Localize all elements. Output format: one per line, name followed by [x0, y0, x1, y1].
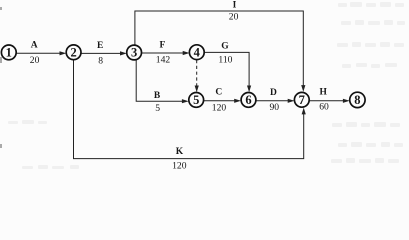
- svg-text:H: H: [320, 88, 328, 98]
- node 1: [1, 45, 16, 60]
- svg-text:E: E: [97, 41, 103, 51]
- svg-text:120: 120: [172, 160, 187, 171]
- svg-text:2: 2: [70, 46, 76, 60]
- arrowhead into node 3: [120, 51, 127, 55]
- svg-text:7: 7: [299, 93, 305, 107]
- arrowhead into node 7 bottom: [302, 108, 306, 115]
- wire G: 4 -> corner -> down into 6: [204, 52, 249, 86]
- svg-text:142: 142: [156, 55, 171, 66]
- wire C: 5->6: [204, 100, 236, 102]
- wire A: 1->2: [16, 52, 60, 54]
- node 8: [350, 92, 365, 107]
- arrowhead into node 8 left: [343, 99, 350, 103]
- svg-text:B: B: [154, 91, 161, 101]
- arrowhead into node 7 top: [301, 85, 305, 92]
- arrowhead into node 7 left: [288, 99, 295, 103]
- arrowhead into node 2: [60, 51, 67, 55]
- node 7: [294, 92, 309, 107]
- svg-text:8: 8: [354, 93, 360, 107]
- node 6: [241, 93, 256, 108]
- wire H: 7->8: [309, 100, 344, 102]
- left edge scan marks: [0, 7, 2, 148]
- wire D: 6->7: [256, 100, 289, 102]
- wire K: 2 bottom -> down -> right -> up into 7: [74, 60, 304, 159]
- svg-text:4: 4: [194, 45, 201, 59]
- svg-text:8: 8: [98, 56, 103, 67]
- svg-text:F: F: [159, 41, 165, 51]
- svg-text:D: D: [270, 88, 277, 98]
- svg-text:60: 60: [319, 102, 329, 113]
- svg-text:K: K: [176, 147, 184, 157]
- svg-text:C: C: [215, 88, 222, 98]
- node 5: [189, 93, 204, 108]
- svg-text:G: G: [221, 41, 229, 51]
- svg-text:110: 110: [218, 54, 232, 65]
- arrowhead into node 6 top: [247, 86, 251, 93]
- svg-text:5: 5: [155, 103, 160, 114]
- svg-text:5: 5: [193, 93, 199, 107]
- svg-text:1: 1: [6, 46, 12, 60]
- svg-text:6: 6: [245, 93, 251, 107]
- dummy arrow 4->5 dashed: [196, 60, 198, 87]
- wire F: 3->4: [142, 52, 184, 54]
- wire B: 3 bottom -> corner -> into 5: [136, 60, 183, 101]
- node 4: [189, 45, 204, 60]
- arrowhead into node 5 top: [195, 86, 199, 93]
- svg-text:20: 20: [30, 55, 40, 66]
- svg-text:3: 3: [131, 46, 137, 60]
- svg-text:20: 20: [229, 11, 239, 22]
- node 2: [66, 45, 81, 60]
- wire I: 3 top -> up -> right -> down into 7: [135, 11, 303, 86]
- ghost bleed-through noise right side: [8, 2, 405, 169]
- svg-text:120: 120: [212, 103, 227, 114]
- node 3: [127, 45, 142, 60]
- arrowhead into node 6 left: [234, 99, 241, 103]
- svg-text:I: I: [233, 1, 237, 11]
- svg-text:90: 90: [270, 102, 280, 113]
- wire E: 2->3: [81, 52, 121, 54]
- arrowhead into node 5 left: [182, 99, 189, 103]
- svg-text:A: A: [31, 40, 38, 50]
- arrowhead into node 4: [183, 51, 190, 55]
